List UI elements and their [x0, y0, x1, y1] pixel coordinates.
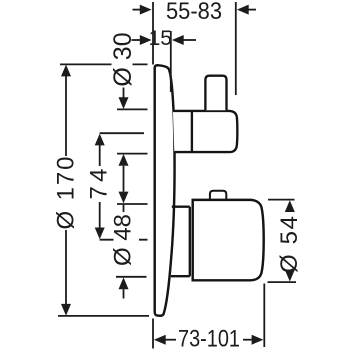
volume handle (Ø54) [193, 200, 264, 280]
temperature lever handle on top sleeve [205, 76, 226, 111]
tick Ø170 top [60, 63, 148, 65]
svg-text:73-101: 73-101 [178, 326, 240, 350]
tick Ø30 bottom [117, 153, 148, 155]
svg-text:Ø 170: Ø 170 [53, 157, 80, 230]
extension line 73-101 right [263, 284, 265, 348]
dimension Ø170 (plate) [61, 65, 71, 316]
svg-text:Ø 48: Ø 48 [110, 214, 137, 266]
sleeve/neck separator [191, 111, 193, 152]
tick Ø48 top [117, 203, 148, 205]
dimension Ø30 (top sleeve) [119, 88, 129, 180]
svg-text:Ø 54: Ø 54 [276, 216, 303, 273]
dimension Ø54 (volume handle) [285, 200, 295, 281]
handle button [210, 191, 226, 200]
tick 74 top [100, 132, 144, 134]
extension line 55-83 right [235, 2, 237, 95]
bottom neck (Ø48 sleeve) [171, 207, 190, 277]
top sleeve (thermostat cartridge, Ø30) with neck [173, 111, 237, 152]
dimension 73-101 (wall to handle front) [154, 335, 264, 345]
svg-text:15: 15 [149, 27, 172, 50]
dimension 55-83 [133, 5, 257, 15]
svg-text:55-83: 55-83 [166, 0, 222, 25]
tick Ø54 bottom [268, 281, 297, 283]
svg-text:Ø 30: Ø 30 [109, 32, 137, 86]
extension line left (wall face) bottom [152, 319, 154, 349]
tick Ø30 top [117, 108, 148, 110]
escutcheon plate (side view, Ø170) [155, 65, 175, 316]
tick 74 bottom [100, 239, 148, 241]
tick Ø170 bottom [58, 315, 149, 317]
extension line 15 right [170, 31, 172, 92]
tick Ø54 top [268, 199, 295, 201]
dimension Ø48 (bottom sleeve) [119, 179, 129, 299]
dimension 74 (cartridge centers) [95, 134, 105, 240]
tick Ø48 bottom [116, 276, 147, 278]
dimension 15 [132, 35, 197, 45]
extension line left (wall face) top [152, 2, 154, 65]
